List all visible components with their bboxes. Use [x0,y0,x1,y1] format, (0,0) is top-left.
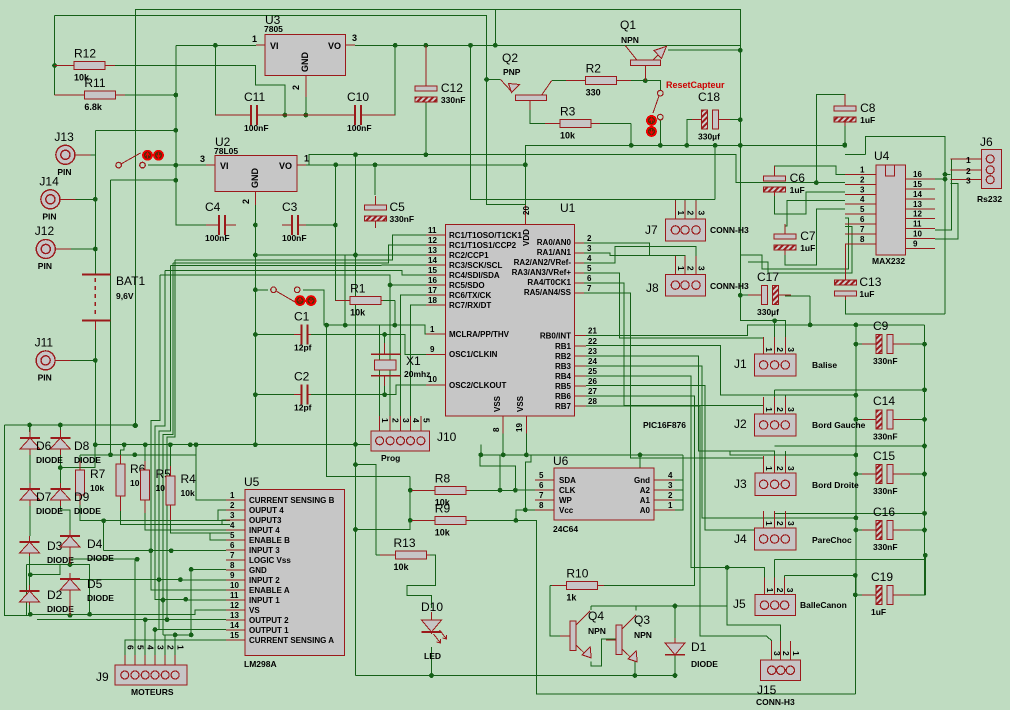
svg-text:14: 14 [428,256,437,265]
svg-text:C7: C7 [800,229,816,243]
switch S1 (main power) [116,153,146,168]
resistor R9 [412,501,470,537]
junction [629,143,634,148]
pushbutton actuator [295,295,317,306]
junction [633,673,638,678]
svg-text:C3: C3 [282,200,298,214]
diode D2 [20,585,75,614]
wire y634 run [163,634,191,636]
wire second top rail [55,16,526,205]
svg-text:1uF: 1uF [790,185,805,195]
svg-text:A1: A1 [640,496,651,505]
svg-text:330nF: 330nF [390,214,415,224]
wire J4 pin2 rail [775,512,925,514]
wire R10 left [550,585,571,587]
svg-text:D7: D7 [36,490,52,504]
wire bus RC2 pin13 [255,254,426,256]
wire d row [27,564,70,566]
wire J13 to x175.8 [95,129,176,131]
svg-text:VI: VI [220,161,229,171]
wire U4 pin9 to J6 pin3 [935,184,958,239]
svg-text:3: 3 [860,185,865,194]
wire R6 bottom run [120,506,230,525]
svg-text:3: 3 [668,481,673,490]
svg-text:D10: D10 [421,600,443,614]
wire U4 pin16 [935,178,945,180]
wire to U5 INPUT2 [70,579,226,581]
junction [478,453,483,458]
junction [382,332,387,337]
transistor Q4 [560,609,606,658]
junction [173,163,178,168]
svg-text:LED: LED [424,651,441,661]
wire to U5 OUTPUT2 [37,619,226,621]
junction [253,253,258,258]
wire left boundary loop [5,425,27,615]
wire R2 right [617,79,646,81]
wire INPUT4 link [214,529,226,531]
junction [353,253,358,258]
wire R4 bottom run [170,515,230,533]
junction [101,518,106,523]
svg-text:VSS: VSS [516,395,525,412]
wire R7 bottom run [80,505,230,521]
svg-text:J15: J15 [757,683,777,697]
wire x335 riser to R1 [335,165,350,300]
svg-text:25: 25 [588,367,597,376]
svg-text:8: 8 [860,235,865,244]
svg-text:14: 14 [230,621,239,630]
svg-text:GND: GND [249,566,267,575]
wire Q2 collector to R3 [530,100,560,124]
svg-text:6: 6 [587,274,592,283]
junction [373,162,378,167]
wire C17 left [740,294,757,296]
capacitor C16 [862,505,910,552]
capacitor C10 [310,90,395,133]
svg-text:3: 3 [786,407,796,412]
wire R13 left riser [356,465,376,555]
wire bus to pin14 [170,264,426,266]
svg-text:J13: J13 [54,130,74,144]
wire J3 pin3 riser [784,451,786,466]
wire D1 top [674,606,676,643]
svg-text:C12: C12 [441,81,463,95]
svg-text:330: 330 [586,87,601,97]
svg-text:CLK: CLK [559,486,576,495]
svg-text:2: 2 [775,466,785,471]
wire top rail to VO rail link [494,10,496,46]
motor driver U5 (LM298A) [226,475,345,669]
svg-text:1: 1 [304,154,309,164]
svg-text:2: 2 [966,166,971,176]
svg-text:R9: R9 [435,501,451,515]
wire J2 pin3 riser [784,395,786,407]
wire RA5 to J3 pin1 [584,293,764,466]
voltage regulator U3 [252,13,357,97]
svg-text:6.8k: 6.8k [84,102,103,112]
svg-text:3: 3 [966,176,971,186]
svg-text:7: 7 [587,284,592,293]
wire Q2 emitter feed [487,79,501,81]
resistor R4 [166,466,196,520]
junction [738,293,743,298]
svg-text:RC7/RX/DT: RC7/RX/DT [449,301,491,310]
wire bottom loop [516,520,855,694]
capacitor C14 [862,394,910,441]
svg-text:7: 7 [230,551,235,560]
wire R4 top [169,445,171,468]
junction [922,417,927,422]
wire right rail bottom [924,555,926,595]
wire C9 left [856,343,873,345]
svg-text:CURRENT SENSING A: CURRENT SENSING A [249,636,334,645]
svg-text:GND: GND [300,52,310,73]
wire R8 left [410,489,435,491]
wire C13 bottom run [845,298,945,314]
svg-text:VDD: VDD [522,229,531,246]
junction [922,342,927,347]
junction [93,442,98,447]
wire R9 left [410,519,435,521]
resistor R12 [55,47,115,83]
wire RA0 to J8 pin1 [584,243,675,258]
wire RA4 to J2 pin1 [584,283,764,407]
wire D8/D9 mid link [60,445,95,468]
wire J7 pin1 riser [674,199,676,203]
svg-text:J8: J8 [646,281,659,295]
svg-text:D8: D8 [74,439,90,453]
wire C13 to U4 pin8 [844,244,846,281]
junction [501,453,506,458]
svg-text:2: 2 [241,199,251,204]
connector J6 (Rs232) [951,135,1003,204]
svg-text:8: 8 [492,427,501,432]
svg-text:14: 14 [913,190,922,199]
svg-text:15: 15 [428,266,437,275]
junction [303,113,308,118]
svg-text:330nF: 330nF [873,431,898,441]
wire +5 rail to U4 pin2 [309,155,845,183]
junction [93,197,98,202]
svg-text:GND: GND [250,168,260,189]
junction [523,162,528,167]
wire J7 pin2 riser [684,199,686,203]
capacitor C15 [862,449,910,496]
wire U6 A2 [675,489,683,491]
svg-text:J12: J12 [35,224,55,238]
svg-text:RC5/SDO: RC5/SDO [449,281,485,290]
wire reset switch riser [659,120,661,145]
svg-text:3: 3 [785,588,795,593]
wire VDD riser and +5 rail y145.4 [525,145,844,224]
svg-text:26: 26 [588,377,597,386]
wire bus to pin15 [165,270,426,275]
junction [93,247,98,252]
wire left cap rail [855,325,857,595]
wire to U5 INPUT1 [155,560,226,600]
capacitor C3 [282,200,307,243]
wire Q1 base feed [575,44,625,46]
svg-text:WP: WP [559,496,573,505]
junction [392,323,397,328]
svg-text:2: 2 [686,266,696,271]
wire J14 lead [60,198,95,200]
svg-text:RA1/AN1: RA1/AN1 [537,248,572,257]
wire rail y454.8 [80,454,196,456]
svg-text:9,6V: 9,6V [116,291,134,301]
wire OSC1 net [385,335,436,355]
resistor R2 [566,61,631,97]
wire top rail / +V right vertical [136,10,786,426]
junction [353,462,358,467]
wire D6-D7 link [29,454,31,483]
svg-text:15: 15 [230,631,239,640]
wire R1 right riser [394,300,396,325]
pushbutton actuator [142,150,164,161]
svg-text:1: 1 [380,418,390,423]
wire U3 VI input [176,44,256,46]
wire J9 pin6 to CURRSENS A [125,640,226,655]
wire Q1 emitter to +V [668,49,740,51]
svg-text:20mhz: 20mhz [404,369,430,379]
junction [173,633,178,638]
resistor R10 [552,567,604,603]
svg-text:78L05: 78L05 [214,146,238,156]
svg-text:C1: C1 [294,310,310,324]
wire trim [166,619,168,621]
svg-text:DIODE: DIODE [87,593,114,603]
junction [922,511,927,516]
wire D7 to D3 [29,505,31,536]
wire +9V rail from U3 VO [355,44,740,46]
wire battery negative down [94,320,96,444]
junction [149,548,154,553]
svg-text:C16: C16 [873,505,895,519]
svg-text:J1: J1 [734,357,747,371]
svg-text:3: 3 [587,244,592,253]
wire J12 lead [55,248,95,250]
junction [484,77,489,82]
wire CLK link [480,455,515,490]
wire R8 right to U6 CLK [465,489,535,491]
junction [333,223,338,228]
svg-text:R11: R11 [84,76,105,90]
wire OUPUT3 link [222,520,226,525]
svg-text:RC1/T1OSO/T1CK1: RC1/T1OSO/T1CK1 [449,231,522,240]
wire C11 left riser [215,45,248,115]
wire left branch R12/R11 [54,16,56,96]
wire GND vertical x255 [254,199,256,445]
voltage regulator U2 [200,135,309,205]
wire C10 right riser [363,45,395,115]
wire y614 left run [30,613,70,615]
svg-text:16: 16 [428,276,437,285]
wire RB2 to J3 pin2 [586,356,775,466]
junction [353,442,358,447]
junction [514,518,519,523]
svg-text:INPUT 1: INPUT 1 [249,596,280,605]
junction [424,43,429,48]
wire C12 bottom riser [425,103,427,155]
svg-text:19: 19 [515,423,524,432]
wire J5 pin2 rail [775,558,926,560]
capacitor C17 [748,270,791,317]
capacitor C8 [834,94,876,126]
wire C8 bottom riser [844,124,846,145]
svg-text:3: 3 [200,154,205,164]
wire C14 right [897,418,925,420]
wire to U5 INPUT3 [104,550,226,552]
resistor R1 [335,281,383,317]
wire J7 pin3 riser [695,199,697,203]
wire C14 left [856,418,873,420]
wire right loop x945 [865,137,945,314]
diode D5 [60,573,114,615]
junction [253,332,258,337]
transistor Q3 [606,613,652,662]
wire VSS2 down [525,434,527,455]
wire rail ext [845,154,865,156]
svg-text:24C64: 24C64 [553,524,578,534]
wire RB0 rail [586,325,925,336]
svg-text:5: 5 [421,418,431,423]
svg-text:4: 4 [587,254,592,263]
wire R13 left [376,554,386,556]
junction [108,452,113,457]
svg-text:Gnd: Gnd [634,476,650,485]
svg-text:1: 1 [230,491,235,500]
wire R11 right [116,94,176,96]
svg-text:C5: C5 [390,200,406,214]
wire switch to U2 VI [148,164,206,166]
junction [468,43,473,48]
svg-text:12: 12 [230,601,239,610]
wire collector riser [726,568,728,607]
wire RA2 to J8 pin3 [584,247,696,263]
svg-text:100nF: 100nF [205,233,230,243]
junction [133,423,138,428]
wire Q3 emitter down [634,662,636,676]
wire bus drop 4 [163,263,173,600]
connector J8 [646,256,749,296]
svg-text:C11: C11 [244,90,265,104]
wire C19 right [897,594,925,596]
wire J4 row to left rail [702,517,856,519]
svg-text:3: 3 [697,211,707,216]
junction [173,93,178,98]
wire x345 riser (sw to bus) [344,255,346,325]
junction [253,287,258,292]
svg-text:6: 6 [860,215,865,224]
svg-text:J5: J5 [733,597,746,611]
wire C6 top to U4 pin1 [775,166,845,177]
svg-text:C8: C8 [860,101,876,115]
wire R3 right run [592,123,632,125]
wire C7 top to U4 pin4 [785,201,845,236]
wire R5 top [144,445,146,462]
junction [854,472,859,477]
junction [194,442,199,447]
svg-text:LM298A: LM298A [244,659,277,669]
wire C1 right [310,334,385,336]
resistor R5 [141,461,171,513]
wire C18 left elbow [687,120,700,146]
wire Vcc link up [525,455,531,510]
wire R2 left [552,79,586,81]
svg-text:8: 8 [230,561,235,570]
svg-text:CONN-H3: CONN-H3 [756,697,795,707]
capacitor C4 [205,200,236,243]
junction [183,597,188,602]
wire RB7 to J15 pin3 [586,406,772,650]
svg-text:CURRENT SENSING B: CURRENT SENSING B [249,496,335,505]
diode D7 [20,483,63,516]
junction [922,444,927,449]
svg-text:28: 28 [588,397,597,406]
junction [132,452,137,457]
svg-text:D1: D1 [691,640,707,654]
connector J7 [645,201,749,241]
svg-text:10: 10 [230,581,239,590]
switch S2 (MCLR reset) [271,287,300,302]
svg-text:RA4/T0CK1: RA4/T0CK1 [527,278,571,287]
wire U2 VO +5 run [306,164,525,166]
junction [253,223,258,228]
junction [943,172,948,177]
capacitor C18 [692,90,730,142]
wire bus drop 2 [155,270,165,560]
svg-text:A2: A2 [640,486,651,495]
wire SDA riser [499,455,501,490]
wire MCLR net [303,290,436,334]
wire RA3 to J1 pin1 [584,273,764,347]
wire RB5 to J4 pin1 [586,386,764,536]
junction [388,283,393,288]
svg-text:RC2/CCP1: RC2/CCP1 [449,251,489,260]
svg-text:6: 6 [230,541,235,550]
svg-text:10: 10 [913,230,922,239]
junction [165,617,170,622]
battery BAT1 [82,274,146,330]
svg-text:330µf: 330µf [757,307,779,317]
svg-text:Bord Droite: Bord Droite [812,480,859,490]
svg-text:RA5/AN4/SS: RA5/AN4/SS [524,288,572,297]
connector J4 [734,511,852,550]
diode D3 [20,536,75,565]
svg-text:1: 1 [764,466,774,471]
junction [493,43,498,48]
wire D10 cathode down [431,647,433,676]
wire C16 left [856,529,873,531]
connector J15 [756,641,801,707]
pushbutton actuator [646,115,657,137]
connector J14 (PIN terminal) [39,174,95,221]
wire VSS1 down [502,434,504,455]
svg-text:1uF: 1uF [860,115,875,125]
svg-text:Bord Gauche: Bord Gauche [812,420,866,430]
junction [161,598,166,603]
svg-text:9: 9 [913,239,918,248]
wire J3 row to left rail [698,451,856,455]
junction [343,323,348,328]
wire OSC2 net [385,385,436,395]
svg-text:C15: C15 [873,449,895,463]
svg-text:U5: U5 [244,475,260,489]
svg-text:MAX232: MAX232 [872,256,905,266]
junction [673,604,678,609]
svg-text:6: 6 [539,481,544,490]
